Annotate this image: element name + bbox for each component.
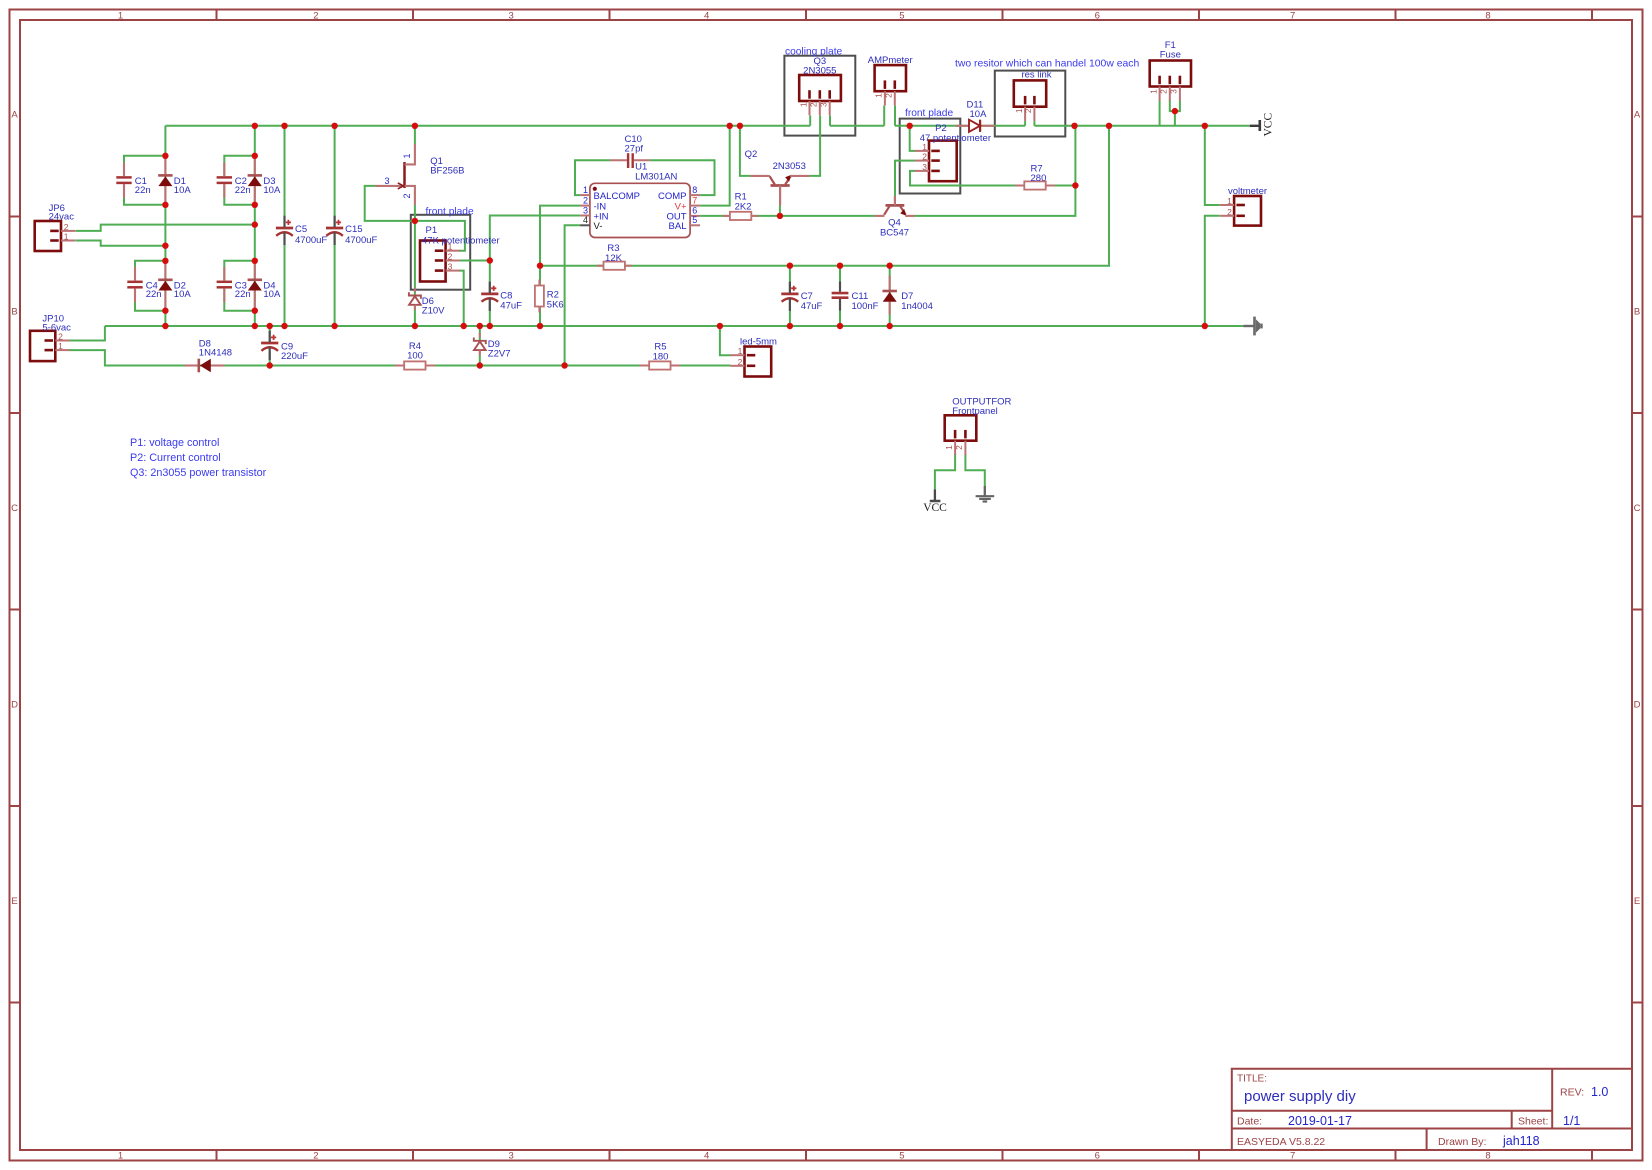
svg-text:7: 7 <box>1290 10 1295 21</box>
svg-text:C: C <box>11 503 18 514</box>
svg-text:Date:: Date: <box>1237 1116 1262 1128</box>
svg-text:24vac: 24vac <box>49 211 75 222</box>
svg-text:5: 5 <box>899 10 904 21</box>
svg-text:1: 1 <box>874 93 884 98</box>
svg-text:C5: C5 <box>295 224 307 235</box>
svg-text:8: 8 <box>1485 1150 1490 1161</box>
svg-text:10A: 10A <box>263 289 281 300</box>
svg-text:2N3055: 2N3055 <box>803 66 836 77</box>
svg-text:2: 2 <box>448 252 453 262</box>
svg-text:22n: 22n <box>135 185 151 196</box>
svg-text:C15: C15 <box>345 224 362 235</box>
svg-text:2: 2 <box>738 357 743 367</box>
svg-text:AMPmeter: AMPmeter <box>868 55 913 66</box>
svg-text:V-: V- <box>594 221 603 232</box>
svg-text:VCC: VCC <box>1263 113 1275 137</box>
svg-text:4700uF: 4700uF <box>295 235 327 246</box>
svg-text:C: C <box>1634 503 1641 514</box>
svg-text:P1: voltage control: P1: voltage control <box>130 437 219 449</box>
svg-text:3: 3 <box>1169 89 1179 94</box>
svg-text:180: 180 <box>653 351 669 362</box>
svg-text:47uF: 47uF <box>801 301 823 312</box>
svg-text:6: 6 <box>1095 10 1100 21</box>
svg-text:D: D <box>1634 699 1641 710</box>
svg-text:COMP: COMP <box>658 191 687 202</box>
svg-text:res link: res link <box>1021 70 1051 81</box>
svg-text:Sheet:: Sheet: <box>1518 1116 1548 1128</box>
svg-text:1N4148: 1N4148 <box>199 347 232 358</box>
svg-text:front plade: front plade <box>905 108 953 119</box>
svg-text:E: E <box>11 896 17 907</box>
svg-text:5: 5 <box>899 1150 904 1161</box>
svg-text:4700uF: 4700uF <box>345 235 377 246</box>
svg-text:2: 2 <box>884 93 894 98</box>
svg-text:27pf: 27pf <box>625 143 644 154</box>
svg-text:VCC: VCC <box>923 502 947 514</box>
svg-text:2: 2 <box>1023 108 1033 113</box>
svg-text:12K: 12K <box>605 253 623 264</box>
svg-text:1: 1 <box>738 346 743 356</box>
svg-text:5-6vac: 5-6vac <box>42 322 71 333</box>
svg-text:jah118: jah118 <box>1502 1134 1540 1148</box>
svg-text:220uF: 220uF <box>281 351 308 362</box>
svg-text:front plade: front plade <box>426 207 474 218</box>
svg-text:Q2: Q2 <box>745 149 758 160</box>
svg-text:2: 2 <box>809 102 819 107</box>
svg-text:REV:: REV: <box>1560 1087 1584 1099</box>
svg-text:1: 1 <box>1227 196 1232 206</box>
svg-text:6: 6 <box>692 205 697 215</box>
svg-text:10A: 10A <box>970 109 988 120</box>
svg-text:1: 1 <box>118 10 123 21</box>
svg-text:two resitor which can handel 1: two resitor which can handel 100w each <box>955 58 1139 69</box>
svg-text:EASYEDA V5.8.22: EASYEDA V5.8.22 <box>1237 1136 1325 1148</box>
svg-text:3: 3 <box>509 1150 514 1161</box>
svg-text:1: 1 <box>944 445 954 450</box>
svg-text:1: 1 <box>118 1150 123 1161</box>
svg-text:22n: 22n <box>235 185 251 196</box>
svg-text:2K2: 2K2 <box>735 201 752 212</box>
svg-text:1: 1 <box>402 153 412 158</box>
svg-text:100nF: 100nF <box>852 301 879 312</box>
svg-text:2: 2 <box>1227 207 1232 217</box>
svg-text:D: D <box>11 699 18 710</box>
svg-text:TITLE:: TITLE: <box>1237 1074 1267 1085</box>
svg-text:6: 6 <box>1095 1150 1100 1161</box>
svg-text:Fuse: Fuse <box>1160 50 1181 61</box>
svg-text:A: A <box>1634 109 1641 120</box>
svg-text:voltmeter: voltmeter <box>1228 186 1267 197</box>
svg-text:1: 1 <box>798 102 808 107</box>
svg-text:1.0: 1.0 <box>1591 1085 1608 1099</box>
svg-text:1: 1 <box>64 232 69 242</box>
svg-text:1: 1 <box>1148 89 1158 94</box>
svg-text:8: 8 <box>692 185 697 195</box>
svg-text:Z10V: Z10V <box>422 306 445 317</box>
svg-text:4: 4 <box>704 10 709 21</box>
svg-text:2N3053: 2N3053 <box>773 161 806 172</box>
svg-text:4: 4 <box>704 1150 709 1161</box>
svg-text:LM301AN: LM301AN <box>635 171 677 182</box>
svg-text:47 potentiometer: 47 potentiometer <box>920 133 991 144</box>
svg-text:2: 2 <box>583 195 588 205</box>
svg-text:3: 3 <box>509 10 514 21</box>
svg-text:Frontpanel: Frontpanel <box>952 406 997 417</box>
svg-text:BALCOMP: BALCOMP <box>594 191 640 202</box>
svg-text:280: 280 <box>1031 173 1047 184</box>
svg-text:2: 2 <box>402 193 412 198</box>
svg-text:1: 1 <box>58 341 63 351</box>
svg-text:2: 2 <box>64 222 69 232</box>
svg-text:Z2V7: Z2V7 <box>488 349 511 360</box>
svg-text:3: 3 <box>922 162 927 172</box>
svg-text:47uF: 47uF <box>500 300 522 311</box>
svg-text:3: 3 <box>819 102 829 107</box>
svg-text:3: 3 <box>583 205 588 215</box>
svg-text:1: 1 <box>583 185 588 195</box>
svg-text:2: 2 <box>313 1150 318 1161</box>
svg-text:E: E <box>1634 896 1640 907</box>
svg-text:1n4004: 1n4004 <box>901 301 933 312</box>
svg-text:2: 2 <box>313 10 318 21</box>
svg-text:3: 3 <box>448 262 453 272</box>
svg-text:3: 3 <box>385 176 390 186</box>
svg-text:P2: Current control: P2: Current control <box>130 452 221 464</box>
svg-text:2: 2 <box>922 152 927 162</box>
svg-text:10A: 10A <box>263 185 281 196</box>
svg-text:B: B <box>1634 306 1640 317</box>
svg-text:7: 7 <box>1290 1150 1295 1161</box>
svg-text:cooling plate: cooling plate <box>785 47 843 58</box>
svg-text:10A: 10A <box>174 289 192 300</box>
svg-text:led-5mm: led-5mm <box>740 336 777 347</box>
svg-text:2: 2 <box>1159 89 1169 94</box>
svg-text:2: 2 <box>954 445 964 450</box>
svg-text:100: 100 <box>407 351 423 362</box>
svg-text:5K6: 5K6 <box>547 299 564 310</box>
svg-text:1/1: 1/1 <box>1563 1114 1580 1128</box>
svg-text:7: 7 <box>692 195 697 205</box>
svg-text:10A: 10A <box>174 185 192 196</box>
svg-text:power supply diy: power supply diy <box>1244 1088 1356 1105</box>
svg-text:47K potentiometer: 47K potentiometer <box>422 235 500 246</box>
svg-text:BAL: BAL <box>669 221 687 232</box>
svg-text:BF256B: BF256B <box>430 166 464 177</box>
svg-text:5: 5 <box>692 215 697 225</box>
svg-text:Drawn By:: Drawn By: <box>1438 1136 1486 1148</box>
svg-text:Q3: 2n3055 power transistor: Q3: 2n3055 power transistor <box>130 467 267 479</box>
svg-text:A: A <box>11 109 18 120</box>
svg-text:2019-01-17: 2019-01-17 <box>1288 1114 1352 1128</box>
svg-text:BC547: BC547 <box>880 228 909 239</box>
svg-text:22n: 22n <box>146 289 162 300</box>
svg-text:B: B <box>11 306 17 317</box>
svg-text:8: 8 <box>1485 10 1490 21</box>
svg-text:22n: 22n <box>235 289 251 300</box>
svg-text:4: 4 <box>583 215 588 225</box>
